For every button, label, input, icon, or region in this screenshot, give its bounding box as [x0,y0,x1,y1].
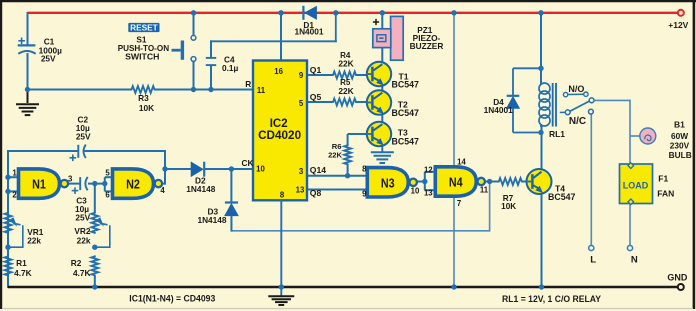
svg-text:8: 8 [362,164,367,173]
svg-text:R2: R2 [71,258,82,268]
svg-text:1N4148: 1N4148 [197,215,226,225]
svg-text:13: 13 [424,188,433,197]
svg-text:3: 3 [299,167,304,176]
svg-text:L: L [590,255,596,266]
svg-text:5: 5 [299,99,304,108]
svg-text:N: N [631,255,638,266]
svg-text:BC547: BC547 [392,80,419,90]
svg-text:22K: 22K [338,86,353,96]
svg-text:IC1(N1-N4) = CD4093: IC1(N1-N4) = CD4093 [129,293,215,303]
svg-text:13: 13 [296,185,305,194]
svg-text:1N4148: 1N4148 [186,184,215,194]
svg-text:IC2: IC2 [270,118,288,130]
svg-text:+12V: +12V [668,20,688,30]
svg-text:25V: 25V [75,212,90,222]
svg-text:3: 3 [68,175,73,184]
svg-text:230V: 230V [670,140,690,150]
svg-text:9: 9 [362,189,367,198]
svg-text:B1: B1 [674,119,685,129]
svg-text:9: 9 [299,71,304,80]
svg-text:F1: F1 [658,173,668,183]
svg-text:10: 10 [256,165,265,174]
svg-text:BC547: BC547 [392,108,419,118]
svg-text:Q1: Q1 [310,65,322,75]
svg-text:LOAD: LOAD [623,181,649,191]
svg-text:10K: 10K [139,103,154,113]
svg-text:11: 11 [480,186,489,195]
svg-text:8: 8 [280,190,285,199]
svg-text:Q14: Q14 [310,165,326,175]
svg-text:N4: N4 [449,176,463,190]
svg-text:FAN: FAN [657,188,674,198]
svg-text:BUZZER: BUZZER [410,41,444,51]
svg-text:BC547: BC547 [548,192,575,202]
svg-text:Q8: Q8 [310,188,322,198]
svg-text:N/C: N/C [569,116,586,127]
svg-text:5: 5 [105,168,110,177]
svg-text:4: 4 [160,186,165,195]
svg-text:N/O: N/O [568,84,584,94]
svg-text:RESET: RESET [130,23,158,33]
svg-text:CD4020: CD4020 [258,130,301,142]
svg-text:N1: N1 [32,178,46,192]
svg-text:1N4001: 1N4001 [294,27,323,37]
svg-text:22K: 22K [338,59,353,69]
svg-text:7: 7 [457,199,461,208]
svg-text:60W: 60W [671,131,688,141]
svg-text:22k: 22k [77,235,91,245]
svg-text:11: 11 [257,86,266,95]
svg-text:25V: 25V [41,54,56,64]
svg-text:10: 10 [411,187,420,196]
svg-text:N2: N2 [126,178,140,192]
svg-text:BULB: BULB [669,150,692,160]
svg-text:14: 14 [457,157,466,166]
svg-text:22k: 22k [27,235,41,245]
svg-text:BC547: BC547 [392,137,419,147]
svg-text:N3: N3 [381,176,395,190]
svg-text:2: 2 [12,191,17,200]
svg-text:GND: GND [667,272,688,282]
svg-text:RL1: RL1 [549,129,565,139]
svg-text:R1: R1 [16,258,27,268]
svg-text:CK: CK [242,158,254,168]
svg-text:12: 12 [424,165,433,174]
svg-text:16: 16 [274,67,283,76]
svg-text:4.7K: 4.7K [14,268,32,278]
svg-text:0.1µ: 0.1µ [222,63,239,73]
svg-text:R: R [245,79,251,89]
svg-text:Q5: Q5 [310,92,322,102]
svg-text:4.7K: 4.7K [73,268,91,278]
svg-text:RL1 = 12V, 1 C/O RELAY: RL1 = 12V, 1 C/O RELAY [502,294,601,304]
svg-text:R3: R3 [138,93,149,103]
svg-text:SWITCH: SWITCH [125,52,159,62]
svg-text:1N4001: 1N4001 [484,105,513,115]
svg-text:25V: 25V [76,131,91,141]
svg-text:1: 1 [12,168,17,177]
svg-text:22K: 22K [328,151,342,160]
svg-text:10K: 10K [501,202,516,211]
svg-text:6: 6 [105,191,110,200]
